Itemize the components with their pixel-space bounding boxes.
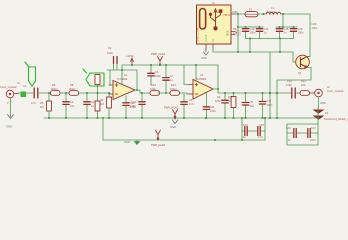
svg-text:100n: 100n [310, 138, 316, 142]
svg-text:R9: R9 [233, 27, 237, 31]
capacitor C7 1u (feedback) [165, 65, 167, 93]
svg-text:C17: C17 [311, 126, 316, 130]
resistor R7 (inside flag area, vertical) [95, 75, 100, 85]
svg-text:Reinforced_Shield_conn: Reinforced_Shield_conn [324, 117, 348, 121]
svg-text:100n: 100n [250, 31, 256, 35]
USB trident symbol [209, 9, 222, 30]
resistor R14 100k (series) [170, 91, 180, 96]
node blob input label attach [21, 92, 27, 98]
svg-text:100n: 100n [286, 83, 292, 87]
svg-text:R13: R13 [151, 83, 156, 87]
svg-text:1Meg: 1Meg [170, 87, 177, 91]
wire cap gnd drop 2 [279, 39, 281, 53]
capacitor C11 100n (lower) [206, 93, 208, 119]
junction C9 [224, 92, 226, 94]
capacitor C8 10u (to ground) [245, 93, 247, 118]
global label IN (vertical flag) [25, 62, 36, 86]
capacitor C17 100n (to ground) [262, 93, 264, 118]
junction U1B output [217, 88, 219, 90]
USB connector J1 [197, 5, 232, 44]
svg-text:U1: U1 [124, 73, 128, 77]
svg-text:10u: 10u [250, 104, 255, 108]
svg-text:2Meg: 2Meg [69, 87, 76, 91]
junction node B [65, 92, 67, 94]
wire shield run [213, 48, 296, 62]
junction R16 [232, 92, 234, 94]
junction cap bank [245, 26, 247, 28]
capacitor C1 4.7u (series) [34, 88, 38, 98]
junction right box [317, 117, 319, 119]
svg-text:C17: C17 [267, 99, 272, 103]
wire R5 to rail [48, 111, 50, 118]
svg-text:C11: C11 [210, 105, 215, 109]
svg-text:C4: C4 [91, 100, 95, 104]
svg-text:C3: C3 [108, 46, 112, 50]
svg-text:100uH: 100uH [267, 10, 275, 14]
svg-text:100n: 100n [155, 74, 161, 78]
cap bank ground wire [246, 38, 294, 40]
svg-text:U1: U1 [200, 73, 204, 77]
junction cap tap row [237, 26, 239, 28]
junction C17 [261, 92, 263, 94]
wire R7 to signal [97, 85, 99, 94]
resistor R9 (to ground) [97, 93, 99, 118]
junction cap gnd [249, 38, 251, 40]
USB pin VBUS [231, 13, 236, 15]
svg-text:100n: 100n [215, 99, 221, 103]
wire U1A out to R13 [135, 90, 150, 93]
svg-text:C10: C10 [131, 100, 136, 104]
USB pin GND [205, 44, 207, 50]
svg-text:R14: R14 [171, 83, 176, 87]
transistor Q1 [296, 55, 310, 69]
wire R6 to R8 [60, 92, 69, 94]
Q1 emitter stub [307, 67, 311, 69]
svg-text:Conn_Coaxial: Conn_Coaxial [327, 89, 344, 93]
junction C8 [244, 92, 246, 94]
wire to J2 [310, 92, 315, 94]
svg-text:100n: 100n [298, 31, 304, 35]
resistor R13 100k (series) [150, 91, 160, 96]
svg-text:PWR_FLAG: PWR_FLAG [151, 52, 165, 56]
svg-text:C18: C18 [259, 123, 264, 127]
resistor R8 2Meg (series) [69, 91, 79, 96]
wire R3 to rail [108, 108, 110, 118]
junction R7 node [96, 92, 98, 94]
svg-text:4.7u: 4.7u [31, 101, 37, 105]
ground rail main [44, 117, 318, 119]
connector J2 coaxial output [315, 89, 323, 97]
USB pin SHIELD [212, 44, 214, 48]
svg-text:100: 100 [301, 83, 306, 87]
resistor R6 2Meg (series) [51, 91, 61, 96]
svg-text:GND: GND [124, 140, 130, 144]
junction node A [48, 92, 50, 94]
wire cap tap down [237, 14, 239, 52]
junction 3V3 tap row [282, 26, 284, 28]
svg-text:C13: C13 [250, 27, 255, 31]
svg-text:GND: GND [6, 125, 12, 129]
wire U1A fb riser [136, 70, 138, 90]
wire J2 shield down [318, 97, 320, 108]
svg-text:C5: C5 [189, 98, 193, 102]
svg-text:100k: 100k [150, 87, 156, 91]
junction node C [86, 92, 88, 94]
capacitor C12b 1u (box) [242, 130, 251, 132]
ground GND (USB) [204, 50, 209, 55]
svg-text:22k: 22k [233, 31, 238, 35]
junction C10 [141, 92, 143, 94]
cap box right vertical [264, 118, 266, 140]
svg-text:C16: C16 [298, 27, 303, 31]
wire R8 to opamp [79, 92, 110, 94]
power +3V3 symbol [131, 58, 134, 65]
junction +in node [108, 92, 110, 94]
svg-text:C16: C16 [287, 79, 292, 83]
op-amp U1B [193, 80, 213, 100]
wire to R5 [48, 93, 50, 101]
wire to R3 [108, 93, 110, 97]
capacitor C13 100n [245, 27, 247, 39]
op-amp U1A [113, 81, 135, 100]
svg-text:PWR_FLAG: PWR_FLAG [164, 106, 178, 110]
inductor L1 100uH [266, 12, 281, 14]
wire U1B V+ riser [195, 65, 197, 81]
junction sallen-key mid [165, 92, 167, 94]
capacitor C14 1u [259, 27, 261, 39]
wire U1B feedback corner [217, 65, 219, 93]
svg-text:GND: GND [170, 125, 176, 129]
junction rail dots [48, 117, 50, 119]
capacitor C3 100n (supply bridge) [114, 64, 118, 70]
wire emitter long vertical [269, 52, 271, 118]
power rail wire [122, 65, 218, 70]
junction emitter join [276, 92, 278, 94]
capacitor C17 100n (right box) [300, 132, 318, 134]
svg-text:GND: GND [320, 101, 326, 105]
svg-text:R5: R5 [40, 101, 44, 105]
svg-text:C8: C8 [250, 100, 254, 104]
resistor R16 (to ground) [233, 93, 235, 97]
right cap box [287, 108, 318, 145]
USB-C receptacle glyph [200, 9, 206, 30]
USB pins CC1 CC2 [231, 32, 235, 35]
svg-text:1M: 1M [100, 102, 104, 106]
svg-text:2Meg: 2Meg [51, 87, 58, 91]
svg-text:100n: 100n [130, 104, 136, 108]
capacitor C5 1u (below U1B) [183, 94, 185, 118]
junction long vertical [269, 92, 271, 94]
svg-text:E2: E2 [325, 111, 329, 115]
junction after fuse [262, 13, 264, 15]
svg-text:10u: 10u [70, 104, 75, 108]
svg-text:C2: C2 [70, 100, 74, 104]
resistor R12 100 (series out) [300, 91, 310, 96]
svg-text:C15: C15 [284, 27, 289, 31]
wire 3V3 tap down [282, 14, 284, 27]
capacitor C18 4.7u (box) [251, 130, 265, 132]
wire L1 to rail corner [281, 13, 310, 15]
wire U1B output [213, 89, 290, 93]
svg-text:C6: C6 [155, 70, 159, 74]
junction power rail [131, 64, 133, 66]
global label flag (mid, pointing left) [83, 69, 104, 86]
svg-text:C14: C14 [264, 27, 269, 31]
svg-text:R6: R6 [52, 83, 56, 87]
cap bank wire upper left [238, 26, 263, 28]
wire cap gnd drop 1 [249, 39, 251, 53]
cap box left vertical [241, 118, 243, 140]
op-amp U1A V- pin / capacitor C12 100n [125, 96, 127, 118]
capacitor C15 1u [279, 27, 281, 39]
junction C6 rail [150, 64, 152, 66]
capacitor C4 100n (to ground) [86, 93, 88, 118]
wire U1B -in riser [184, 65, 189, 85]
capacitor C16 100n (series out) [290, 92, 300, 94]
svg-text:C12: C12 [243, 123, 248, 127]
junction pwr flag [159, 64, 161, 66]
op-amp U1A V+ pin [121, 70, 123, 84]
ground GND (rail) [172, 118, 178, 124]
connector J3 coaxial input [6, 90, 18, 98]
svg-text:C1: C1 [23, 84, 27, 88]
power flag PWR_FLAG (rail) [173, 110, 178, 119]
svg-text:4.7u: 4.7u [189, 102, 195, 106]
svg-text:Q1: Q1 [298, 71, 302, 75]
svg-text:C20: C20 [312, 22, 317, 26]
junction U1A output [136, 89, 138, 91]
wire down to Q1 collector [306, 14, 310, 57]
svg-text:A1B12: A1B12 [205, 34, 208, 42]
svg-text:100n: 100n [107, 51, 113, 55]
svg-text:1M: 1M [40, 105, 44, 109]
power flag PWR_FLAG (top) [158, 57, 163, 66]
capacitor C9 100n (to ground) [224, 93, 226, 118]
wire coax ground [10, 98, 12, 118]
svg-text:R16: R16 [228, 95, 233, 99]
junction 3V3 tap [282, 13, 284, 15]
wire R14 to U1B +in [180, 93, 194, 94]
wire after C1 [39, 92, 50, 94]
svg-text:R12: R12 [301, 79, 306, 83]
wire rail to bottom rail [102, 118, 104, 140]
chassis ground symbol [313, 110, 325, 120]
wire emitter join [277, 68, 311, 119]
capacitor C16 100n [293, 27, 295, 39]
Q1 collector stub [307, 56, 310, 58]
capacitor C13 1u (right box) [287, 132, 300, 134]
ground GND (bottom) [135, 140, 140, 145]
svg-text:C13: C13 [286, 126, 291, 130]
capacitor C2 10u (to ground) [65, 93, 67, 118]
svg-text:100n: 100n [312, 26, 318, 30]
svg-text:4.7u: 4.7u [258, 135, 264, 139]
svg-text:VBUS: VBUS [223, 13, 230, 17]
svg-text:Conn_Coaxial: Conn_Coaxial [0, 85, 17, 89]
svg-text:100n: 100n [210, 109, 216, 113]
junction shield line [249, 51, 251, 53]
resistor R5 1M (to ground) [47, 101, 52, 111]
ground GND (input) [8, 115, 14, 119]
svg-text:C9: C9 [217, 95, 221, 99]
fuse F1 [245, 12, 258, 17]
svg-text:+3V3A: +3V3A [126, 54, 134, 58]
svg-text:USB_C_Rec: USB_C_Rec [196, 27, 200, 42]
bottom rail [103, 139, 265, 141]
capacitor C6 100n (rail decoupling) [150, 65, 152, 85]
wire U1A feedback top [107, 69, 137, 71]
svg-text:PWR_FLAG: PWR_FLAG [151, 143, 165, 147]
wire U1A -in riser [110, 70, 113, 85]
svg-text:R3: R3 [100, 98, 104, 102]
resistor R3 1Meg (to ground) [107, 97, 112, 108]
junction VBUS cap tap [237, 13, 239, 15]
svg-text:TLV9062: TLV9062 [117, 77, 128, 81]
cap bank wire upper right [276, 26, 297, 28]
svg-text:R8: R8 [70, 83, 74, 87]
wire input [19, 92, 34, 94]
svg-text:C7: C7 [170, 74, 174, 78]
power flag PWR_FLAG (bottom) [156, 130, 161, 140]
capacitor C10 100n (to ground) [141, 93, 143, 118]
wire R13 to R14 [158, 92, 171, 94]
wire fuse to L1 [258, 13, 266, 15]
wire VBUS to fuse [236, 13, 245, 15]
svg-text:GND: GND [201, 56, 207, 60]
junction bottom rail [214, 139, 216, 141]
junction fb corner [121, 69, 123, 71]
svg-text:TLV9062: TLV9062 [196, 77, 207, 81]
